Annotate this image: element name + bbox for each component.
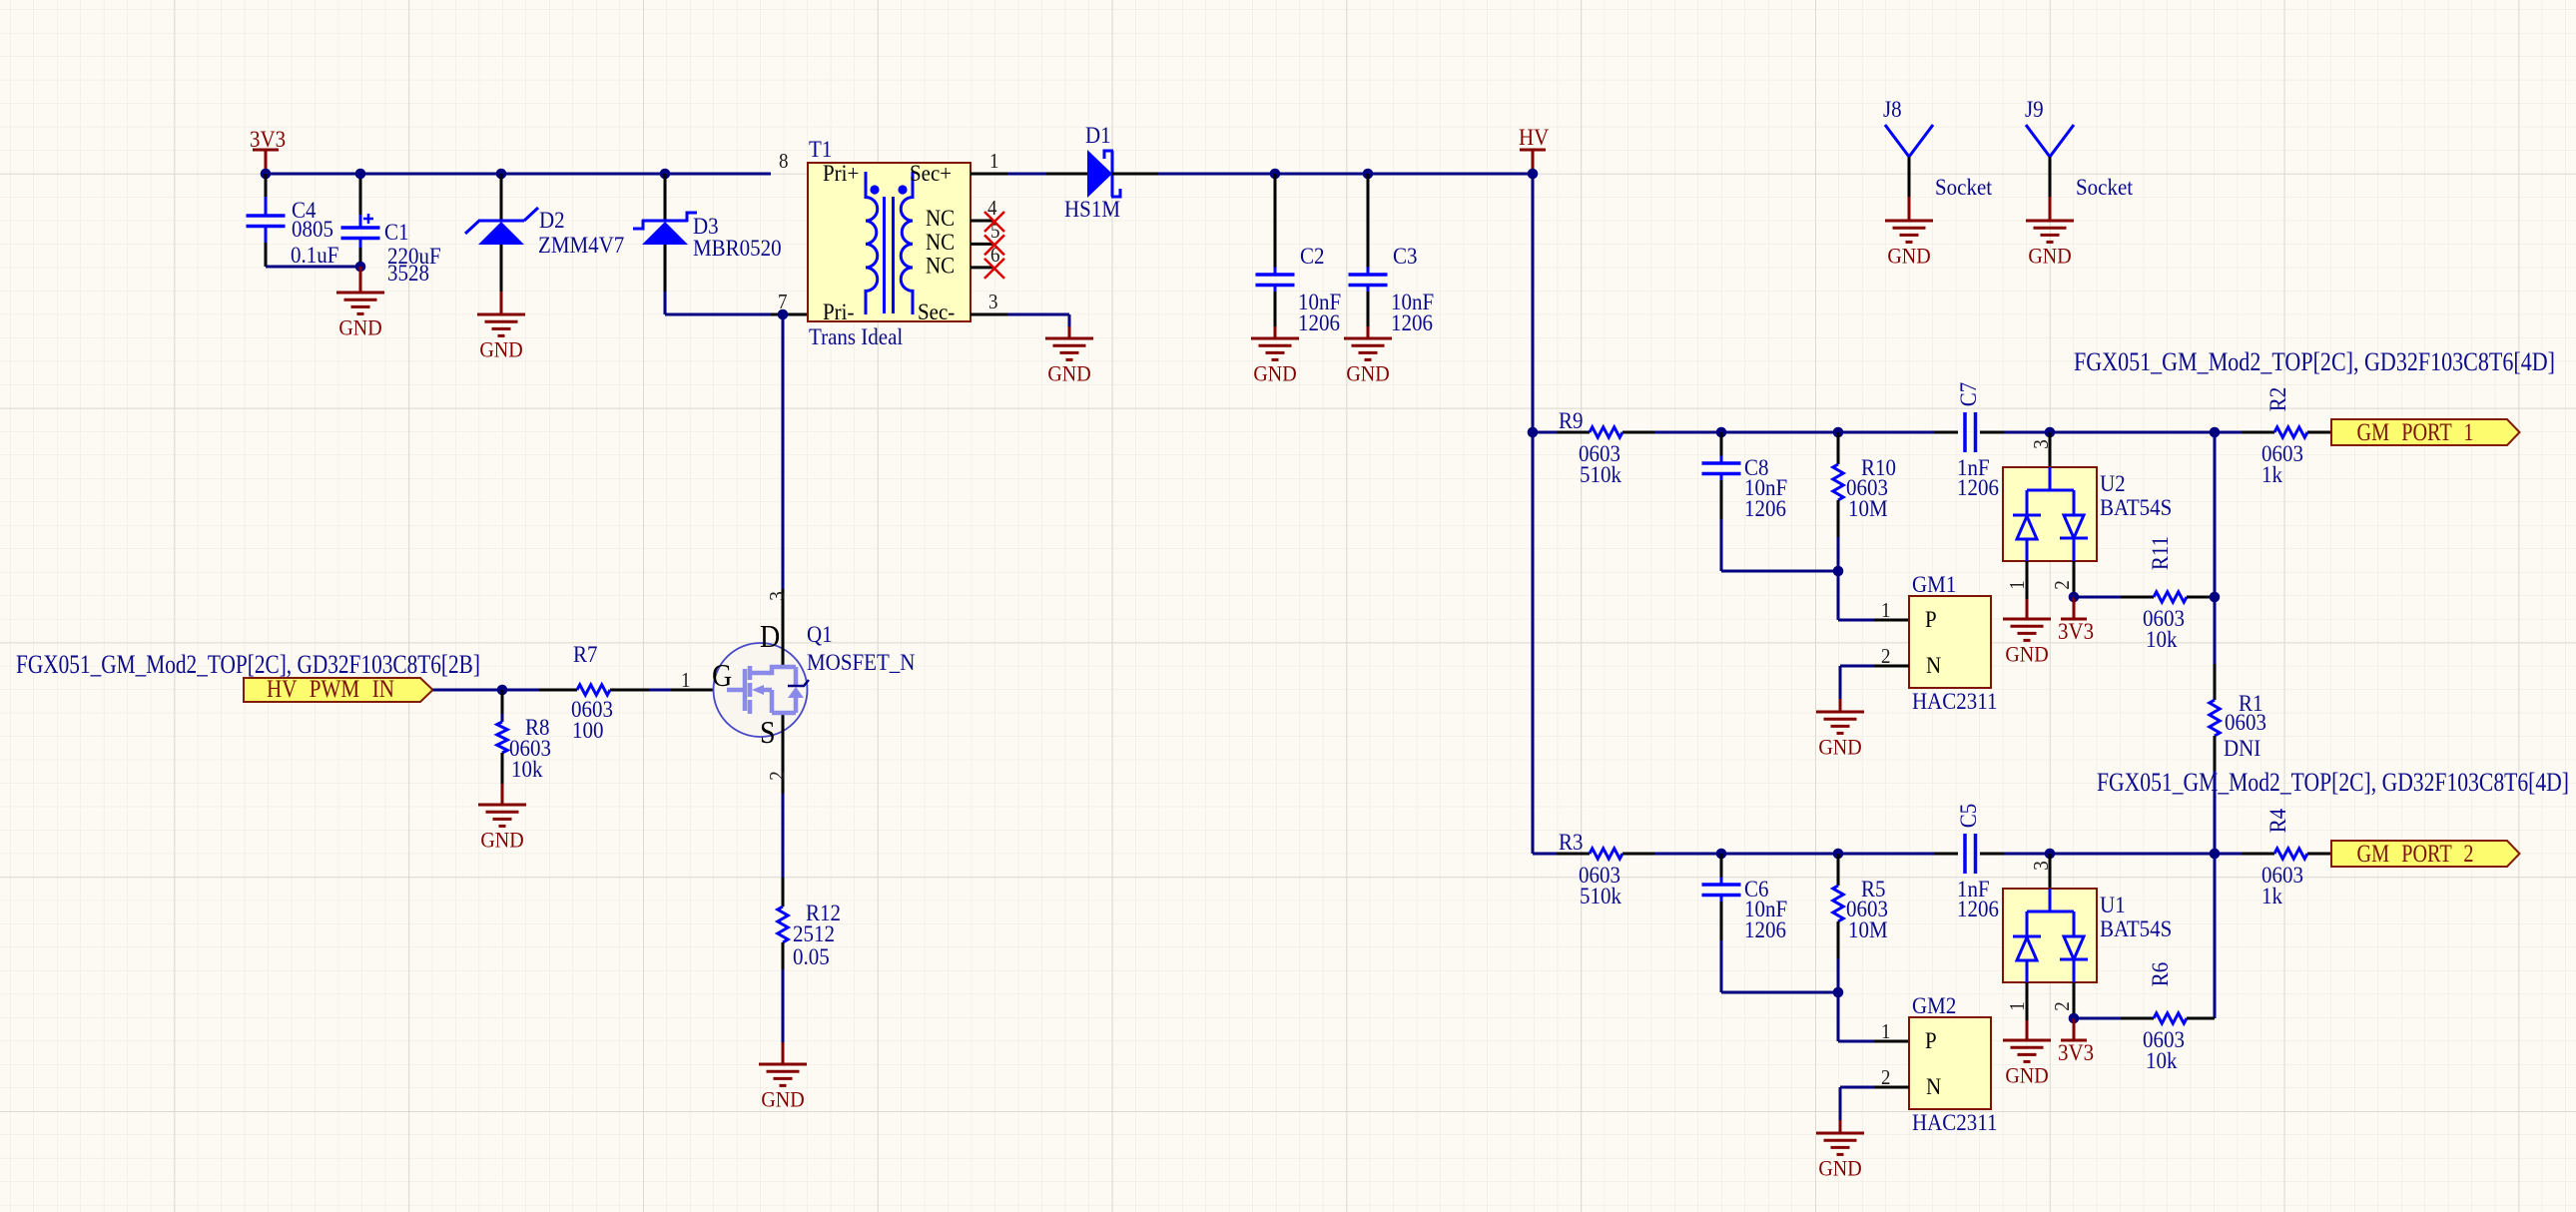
svg-text:10k: 10k: [2146, 626, 2178, 652]
svg-text:D2: D2: [539, 207, 565, 233]
svg-text:ZMM4V7: ZMM4V7: [538, 232, 624, 258]
svg-text:HV: HV: [1519, 124, 1549, 150]
svg-text:1206: 1206: [1298, 309, 1340, 335]
svg-text:FGX051_GM_Mod2_TOP[2C], GD32F1: FGX051_GM_Mod2_TOP[2C], GD32F103C8T6[2B]: [16, 649, 480, 680]
svg-text:GND: GND: [1047, 360, 1090, 385]
svg-text:MOSFET_N: MOSFET_N: [807, 649, 915, 675]
svg-text:HAC2311: HAC2311: [1912, 688, 1998, 714]
node HV/R9 junction: [1528, 427, 1539, 438]
svg-text:1: 1: [681, 669, 690, 692]
wire C4 to C1 bottom: [266, 266, 360, 269]
Q1 source pin: [782, 713, 785, 794]
svg-text:10M: 10M: [1848, 916, 1888, 942]
svg-text:C3: C3: [1393, 243, 1418, 269]
resistor R8: [501, 690, 504, 714]
node row2/R1 junction: [2210, 849, 2221, 860]
ground: [1344, 338, 1392, 359]
wire D3 to T1 pin 7: [664, 292, 667, 314]
svg-text:FGX051_GM_Mod2_TOP[2C], GD32F1: FGX051_GM_Mod2_TOP[2C], GD32F103C8T6[4D]: [2097, 767, 2569, 798]
svg-text:U1: U1: [2100, 892, 2126, 917]
U2 pin 1 to GND: [2026, 561, 2029, 599]
svg-text:C5: C5: [1955, 804, 1981, 829]
svg-text:100: 100: [572, 717, 603, 743]
svg-text:GND: GND: [1818, 1155, 1861, 1180]
GM1 pin 2 to GND: [1874, 665, 1909, 668]
svg-text:3: 3: [988, 291, 997, 313]
svg-text:GND: GND: [1253, 360, 1296, 385]
diode D2 ZMM4V7 (zener): [496, 169, 507, 180]
svg-text:510k: 510k: [1580, 461, 1622, 487]
svg-text:J8: J8: [1883, 96, 1902, 122]
svg-text:S: S: [760, 717, 776, 751]
svg-text:GND: GND: [338, 314, 381, 339]
wire vertical R1 branch: [2210, 427, 2221, 438]
svg-text:1206: 1206: [1744, 495, 1786, 521]
svg-text:R2: R2: [2264, 387, 2290, 412]
svg-text:1k: 1k: [2261, 883, 2283, 909]
svg-text:510k: 510k: [1580, 883, 1622, 909]
svg-text:Trans Ideal: Trans Ideal: [809, 323, 903, 349]
ground: [1045, 338, 1093, 359]
svg-text:GND: GND: [761, 1086, 804, 1111]
svg-text:J9: J9: [2025, 96, 2044, 122]
GM2 pin 2 to GND: [1874, 1086, 1909, 1089]
svg-text:7: 7: [778, 291, 787, 313]
svg-text:P: P: [1925, 1027, 1937, 1053]
svg-text:0603: 0603: [2225, 709, 2266, 735]
capacitor C5: [1921, 853, 1934, 856]
resistor R12: [782, 794, 785, 878]
svg-text:1: 1: [1881, 599, 1890, 622]
svg-text:NC: NC: [926, 252, 955, 278]
component U2 BAT54S: [2045, 427, 2056, 438]
svg-text:1: 1: [989, 150, 998, 173]
power port 3V3 (U1): [2061, 1039, 2087, 1042]
T1 NC pin 4: [970, 220, 993, 223]
U1 pin 1 to GND: [2026, 982, 2029, 1020]
resistor R3: [1533, 853, 1557, 856]
svg-text:R7: R7: [573, 641, 598, 667]
svg-text:1206: 1206: [1391, 309, 1433, 335]
svg-text:1: 1: [2006, 580, 2029, 589]
svg-text:R3: R3: [1559, 829, 1584, 855]
svg-text:1: 1: [1881, 1020, 1890, 1043]
wire D1 to HV corner: [1158, 173, 1533, 176]
transformer T1 Trans Ideal: [808, 163, 970, 321]
ground: [1816, 712, 1864, 733]
resistor R2: [2242, 431, 2274, 434]
svg-text:3: 3: [2030, 439, 2053, 448]
svg-text:Pri+: Pri+: [823, 160, 859, 186]
svg-text:R9: R9: [1559, 407, 1584, 433]
ground: [2003, 1040, 2051, 1061]
resistor R4: [2242, 853, 2274, 856]
svg-text:BAT54S: BAT54S: [2100, 494, 2172, 520]
ground: [477, 314, 525, 335]
svg-text:GM1: GM1: [1912, 571, 1956, 597]
svg-text:N: N: [1926, 1073, 1941, 1099]
node pin7/drain junction: [778, 309, 789, 320]
resistor R9: [1533, 431, 1557, 434]
svg-text:0805: 0805: [292, 216, 333, 242]
capacitor C4: [265, 174, 268, 197]
wire top rail: [266, 173, 771, 176]
transistor Q1 MOSFET_N: [714, 643, 808, 737]
svg-text:MBR0520: MBR0520: [693, 235, 782, 261]
svg-text:GND: GND: [2028, 243, 2071, 268]
ground: [1885, 221, 1933, 242]
svg-text:8: 8: [779, 150, 788, 173]
svg-text:Socket: Socket: [2076, 174, 2134, 200]
svg-text:3V3: 3V3: [2058, 1039, 2094, 1065]
svg-text:GND: GND: [1346, 360, 1389, 385]
T1 secondary winding: [901, 172, 913, 314]
svg-text:DNI: DNI: [2224, 735, 2260, 761]
svg-text:GND: GND: [1887, 243, 1930, 268]
svg-text:1k: 1k: [2261, 461, 2283, 487]
U1 pin 2 to 3V3: [2073, 982, 2076, 1018]
svg-text:R11: R11: [2147, 536, 2173, 570]
svg-text:3: 3: [2030, 861, 2053, 870]
svg-text:HV PWM IN: HV PWM IN: [267, 675, 394, 703]
ground: [336, 293, 384, 313]
svg-text:BAT54S: BAT54S: [2100, 915, 2172, 941]
svg-text:Sec+: Sec+: [910, 160, 952, 186]
ground: [2003, 619, 2051, 640]
svg-text:D1: D1: [1085, 122, 1111, 148]
component U1 BAT54S: [2045, 849, 2056, 860]
svg-text:3528: 3528: [387, 260, 429, 286]
port HV_PWM_IN: [244, 678, 433, 702]
svg-text:FGX051_GM_Mod2_TOP[2C], GD32F1: FGX051_GM_Mod2_TOP[2C], GD32F103C8T6[4D]: [2074, 346, 2555, 377]
svg-text:2: 2: [2051, 580, 2074, 589]
component GM1 HAC2311: [1837, 571, 1840, 620]
svg-text:T1: T1: [809, 136, 832, 162]
svg-text:P: P: [1925, 606, 1937, 632]
svg-text:GND: GND: [480, 827, 523, 852]
T1 pin 3: [970, 313, 1007, 316]
resistor R10: [1833, 427, 1844, 438]
svg-text:1206: 1206: [1744, 916, 1786, 942]
svg-text:2: 2: [766, 771, 789, 780]
capacitor C8: [1716, 427, 1727, 438]
capacitor C6: [1716, 849, 1727, 860]
svg-text:Sec-: Sec-: [918, 299, 955, 324]
T1 primary winding: [866, 172, 878, 314]
diode D3 MBR0520 (schottky): [660, 169, 671, 180]
capacitor C3: [1363, 169, 1374, 180]
svg-text:D: D: [760, 621, 780, 655]
svg-text:GND: GND: [1818, 734, 1861, 759]
resistor R1 (DNI): [2214, 664, 2217, 700]
svg-text:G: G: [712, 660, 732, 694]
wire row1 main: [1654, 431, 1921, 434]
T1 core: [883, 197, 886, 313]
wire row2 right: [2012, 853, 2242, 856]
resistor R11: [2074, 596, 2121, 599]
ground: [1251, 338, 1299, 359]
wire port to R7: [433, 689, 540, 692]
svg-text:Pri-: Pri-: [823, 299, 854, 324]
svg-text:1206: 1206: [1957, 474, 1999, 500]
ground: [478, 805, 526, 826]
svg-text:GND: GND: [2005, 641, 2048, 666]
svg-text:3V3: 3V3: [2058, 618, 2094, 644]
node PWM junction: [497, 685, 508, 696]
svg-text:3V3: 3V3: [250, 126, 286, 152]
component GM2 HAC2311: [1837, 992, 1840, 1041]
U2 pin 2 to 3V3: [2073, 561, 2076, 597]
svg-text:Q1: Q1: [807, 621, 833, 647]
svg-text:2: 2: [1881, 1066, 1890, 1089]
svg-text:NC: NC: [926, 205, 955, 231]
svg-text:R4: R4: [2264, 809, 2290, 834]
svg-text:1: 1: [2006, 1001, 2029, 1010]
wire T1 pin1 to D1: [1007, 173, 1046, 176]
wire row1 right: [2012, 431, 2242, 434]
svg-text:0.05: 0.05: [793, 943, 830, 969]
capacitor C2: [1270, 169, 1281, 180]
svg-text:HAC2311: HAC2311: [1912, 1109, 1998, 1135]
capacitor C7: [1921, 431, 1934, 434]
svg-text:GND: GND: [479, 336, 522, 361]
node rail/3V3: [261, 169, 272, 180]
svg-text:C2: C2: [1300, 243, 1325, 269]
svg-text:10k: 10k: [2146, 1047, 2178, 1073]
ground: [1816, 1133, 1864, 1154]
ground: [2026, 221, 2074, 242]
svg-text:1206: 1206: [1957, 896, 1999, 921]
svg-text:Socket: Socket: [1935, 174, 1993, 200]
T1 NC pin 6: [970, 266, 993, 269]
Q1 drain pin: [782, 314, 785, 589]
svg-text:2: 2: [2051, 1001, 2074, 1010]
resistor R6: [2074, 1017, 2121, 1020]
svg-text:10k: 10k: [511, 756, 543, 782]
svg-text:GM2: GM2: [1912, 992, 1956, 1018]
svg-text:R6: R6: [2147, 962, 2173, 987]
svg-text:GM PORT 2: GM PORT 2: [2357, 840, 2474, 868]
T1 polarity dots: [870, 185, 879, 194]
T1 pin 1: [970, 173, 1007, 176]
T1 NC pin 5: [970, 243, 993, 246]
svg-text:2: 2: [1881, 645, 1890, 668]
wire T1 pin3 to GND: [1007, 313, 1069, 316]
svg-text:0.1uF: 0.1uF: [291, 242, 338, 268]
svg-text:C1: C1: [384, 219, 409, 245]
svg-text:U2: U2: [2100, 470, 2126, 496]
diode D1 HS1M: [1087, 150, 1112, 198]
svg-text:C7: C7: [1955, 382, 1981, 407]
port GM_PORT_1: [2331, 419, 2520, 445]
resistor R7: [539, 689, 577, 692]
svg-text:10M: 10M: [1848, 495, 1888, 521]
port GM_PORT_2: [2331, 841, 2520, 867]
svg-text:N: N: [1926, 652, 1941, 678]
svg-text:GM PORT 1: GM PORT 1: [2357, 418, 2474, 446]
capacitor C1 (polarized): [359, 174, 362, 215]
wire HV vertical: [1532, 174, 1535, 854]
svg-text:3: 3: [766, 591, 789, 600]
resistor R5: [1833, 849, 1844, 860]
svg-text:GND: GND: [2005, 1062, 2048, 1087]
ground: [759, 1064, 807, 1085]
wire row2 main: [1654, 853, 1921, 856]
svg-text:HS1M: HS1M: [1064, 196, 1120, 222]
power port 3V3 (U2): [2061, 618, 2087, 621]
